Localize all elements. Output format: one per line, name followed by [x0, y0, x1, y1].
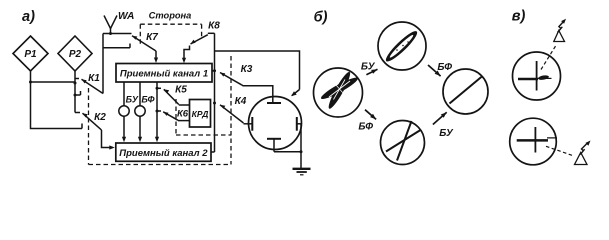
- svg-text:К6: К6: [177, 109, 189, 120]
- svg-text:Р2: Р2: [69, 49, 82, 60]
- svg-text:в): в): [512, 9, 526, 25]
- svg-text:Приемный канал 2: Приемный канал 2: [119, 148, 208, 159]
- svg-text:Приемный канал 1: Приемный канал 1: [120, 69, 208, 80]
- svg-text:WA: WA: [118, 11, 134, 22]
- svg-text:БФ: БФ: [141, 95, 154, 105]
- svg-text:б): б): [314, 10, 328, 26]
- svg-text:К8: К8: [208, 21, 220, 32]
- svg-text:К1: К1: [88, 73, 100, 84]
- svg-text:К3: К3: [241, 64, 253, 75]
- svg-text:БФ: БФ: [358, 122, 373, 133]
- svg-text:К7: К7: [146, 32, 158, 43]
- svg-text:БУ: БУ: [439, 128, 454, 139]
- svg-text:а): а): [22, 9, 35, 25]
- svg-text:КРД: КРД: [192, 109, 209, 119]
- svg-text:К5: К5: [175, 85, 187, 96]
- svg-text:БФ: БФ: [437, 62, 452, 73]
- svg-text:Сторона: Сторона: [149, 10, 192, 20]
- svg-text:К4: К4: [235, 96, 247, 107]
- svg-text:БУ: БУ: [361, 62, 376, 73]
- svg-text:Р1: Р1: [24, 49, 37, 60]
- svg-text:К2: К2: [94, 112, 106, 123]
- svg-text:БУ: БУ: [126, 95, 139, 105]
